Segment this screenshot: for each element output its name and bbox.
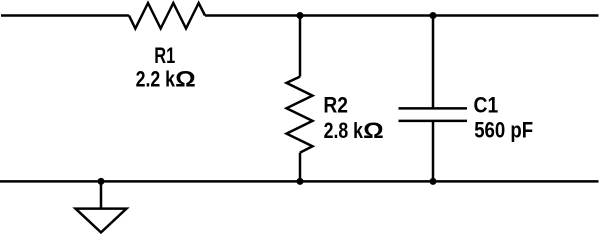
wire C1 bottom stub <box>432 121 435 181</box>
ground symbol <box>76 209 127 233</box>
wire R2 top stub <box>299 16 302 77</box>
resistor R2 <box>287 77 313 153</box>
wire bottom net <box>0 180 599 183</box>
capacitor C1 top plate <box>399 107 468 110</box>
wire R2 bottom stub <box>299 153 302 182</box>
resistor R1 <box>129 3 205 29</box>
node junction dot top of R2 <box>297 12 304 19</box>
svg-text:R1: R1 <box>154 43 175 68</box>
svg-text:Ω: Ω <box>175 67 196 92</box>
capacitor C1 bottom plate <box>399 120 468 123</box>
node junction dot ground tap <box>98 178 105 185</box>
wire ground stub <box>100 181 103 208</box>
svg-text:560 pF: 560 pF <box>474 117 533 142</box>
node junction dot bottom of C1 <box>430 178 437 185</box>
wire top net right segment <box>205 14 599 17</box>
svg-text:Ω: Ω <box>363 118 384 143</box>
svg-text:2.8 k: 2.8 k <box>324 118 364 143</box>
wire top net left segment <box>1 14 129 17</box>
svg-text:2.2 k: 2.2 k <box>136 67 176 92</box>
node junction dot top of C1 <box>430 12 437 19</box>
wire C1 top stub <box>432 16 435 109</box>
node junction dot bottom of R2 <box>297 178 304 185</box>
svg-text:R2: R2 <box>323 93 348 118</box>
svg-text:C1: C1 <box>474 93 499 118</box>
